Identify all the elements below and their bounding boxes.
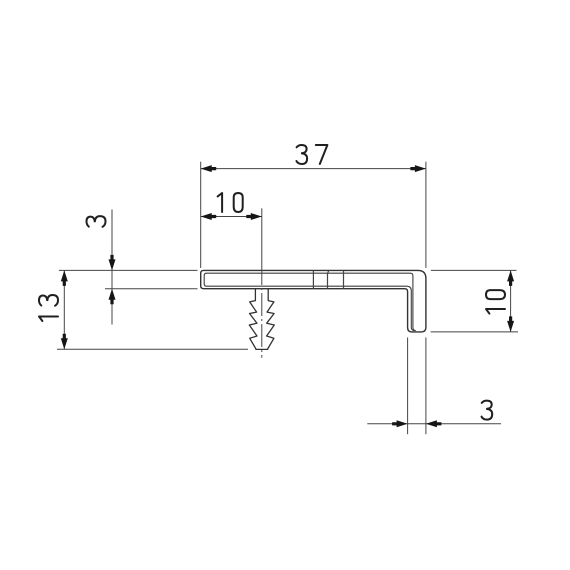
extension line bar bottom to left	[105, 288, 198, 290]
text 13 (rotated)	[39, 295, 58, 321]
arrow 13 top	[61, 270, 68, 286]
text 37	[296, 145, 327, 164]
text 10 right (rotated)	[486, 290, 505, 313]
dim line 10 top	[201, 216, 262, 218]
extension line right of 37	[425, 162, 427, 268]
dim line 37	[201, 168, 426, 170]
text 3 bottom	[482, 401, 493, 420]
arrow 10-right top	[507, 270, 514, 286]
arrow 10-top right	[246, 213, 262, 220]
profile inner bottom line	[207, 286, 415, 330]
arrow 10-right bottom	[507, 316, 514, 332]
spike centerline	[261, 270, 263, 357]
tick line 1 on bar	[312, 271, 314, 289]
arrow 37 left	[201, 165, 217, 172]
profile outer contour	[201, 270, 426, 332]
arrow 3-bottom right	[426, 420, 442, 427]
dim line 13	[63, 270, 65, 349]
extension line leg right down	[425, 338, 427, 435]
arrow 3-left down	[109, 255, 116, 271]
extension line bar top to left	[59, 269, 198, 271]
extension line spike bottom to left	[57, 348, 248, 350]
arrow 10-top left	[201, 213, 217, 220]
barbed spike	[249, 289, 274, 350]
arrow 37 right	[410, 165, 426, 172]
profile inner top line	[207, 273, 416, 331]
dim line 3 bottom	[367, 423, 501, 425]
arrow 3-bottom left	[392, 420, 408, 427]
arrow 3-left up	[109, 289, 116, 305]
extension line left of 37/10	[200, 162, 202, 268]
dim line 3 left vertical	[111, 210, 113, 325]
extension line leg bottom to right	[431, 331, 518, 333]
text 10 top	[218, 193, 243, 212]
text 3 left (rotated)	[87, 216, 106, 227]
tick line 3 on bar	[343, 271, 345, 289]
arrow 13 bottom	[61, 334, 68, 350]
dim line 10 right	[510, 270, 512, 332]
extension line right of 10-top	[261, 208, 263, 270]
profile inner left end	[204, 273, 206, 286]
extension line leg left down	[407, 338, 409, 435]
extension line leg top to right	[431, 269, 517, 271]
tick line 2 on bar	[328, 271, 329, 289]
